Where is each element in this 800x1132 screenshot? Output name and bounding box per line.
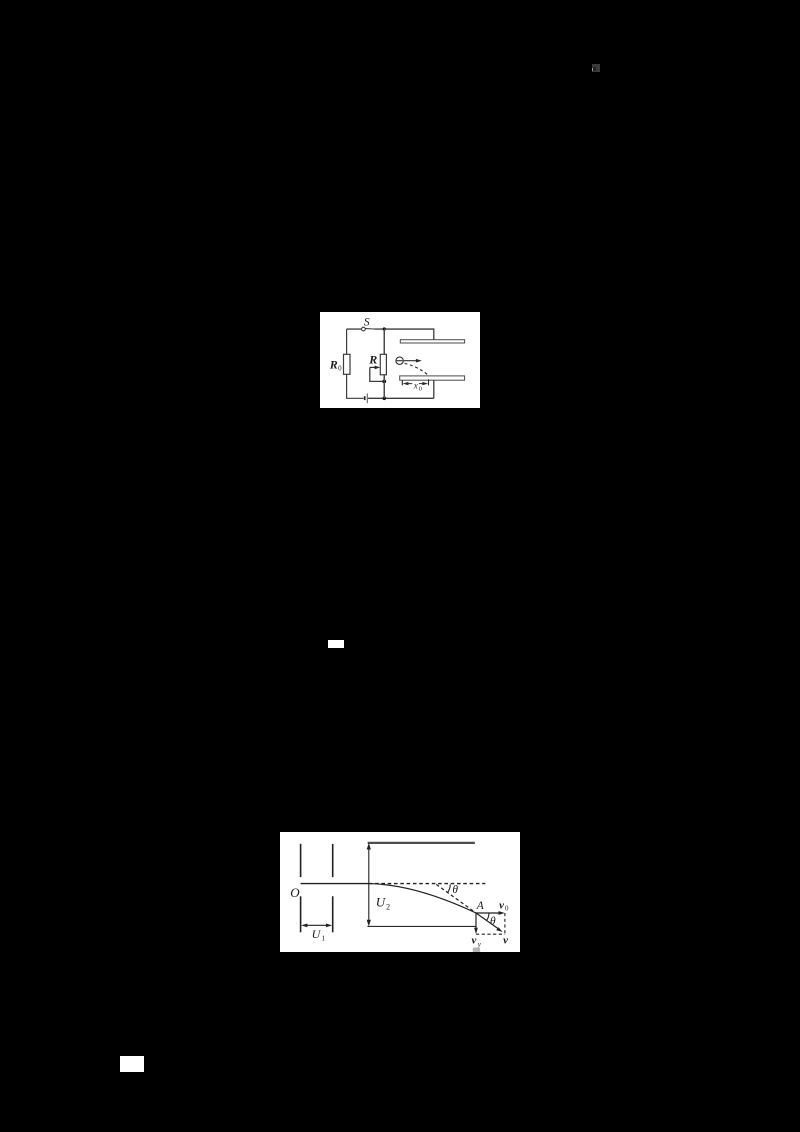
- svg-text:x: x: [413, 380, 418, 390]
- svg-text:θ: θ: [490, 915, 496, 927]
- wire bottom plate down: [433, 380, 435, 398]
- angle theta arc lower: [486, 913, 488, 921]
- small grey ui icon top-right: [592, 64, 601, 73]
- accelerating plate upper-left: [299, 844, 301, 877]
- svg-text:y: y: [477, 940, 482, 948]
- dashed horizontal from vy tip: [476, 933, 505, 935]
- accelerating plate lower-right: [331, 896, 333, 932]
- particle velocity arrow: [404, 359, 417, 361]
- svg-text:1: 1: [321, 933, 325, 942]
- white dash mark mid-page: [328, 640, 344, 648]
- wire top middle: [375, 328, 385, 330]
- x0 right tick: [428, 379, 430, 385]
- wiper arrow of R: [370, 366, 376, 368]
- x0 left tick: [401, 380, 403, 385]
- white rect bottom-left: [120, 1056, 144, 1072]
- svg-text:v: v: [499, 899, 504, 911]
- svg-text:v: v: [471, 934, 476, 946]
- trajectory curve: [369, 883, 476, 912]
- svg-text:θ: θ: [452, 884, 458, 896]
- U1 dimension arrow: [306, 924, 326, 926]
- wire left-bottom vertical: [347, 374, 364, 398]
- x0 dimension arrows: [408, 382, 424, 384]
- angle theta arc upper: [447, 884, 450, 892]
- vector vy: [475, 913, 477, 929]
- wire top-left horizontal: [347, 328, 362, 330]
- switch S: [362, 327, 366, 331]
- dashed tangent line: [436, 884, 476, 913]
- vector v: [476, 913, 498, 929]
- figure 1: circuit schematic: [320, 312, 480, 408]
- svg-text:2: 2: [386, 902, 390, 911]
- svg-text:A: A: [476, 900, 485, 912]
- svg-text:R: R: [368, 352, 377, 366]
- wire left vertical: [346, 329, 348, 354]
- capacitor top plate: [400, 339, 464, 342]
- wiper wire down to node: [370, 367, 384, 381]
- grey smudge bottom: [473, 947, 480, 951]
- charged particle (minus): [396, 357, 403, 364]
- svg-text:0: 0: [338, 364, 342, 372]
- figure 2: deflection diagram: [280, 832, 520, 952]
- wire mid vertical lower: [383, 374, 385, 398]
- axis line from O: [300, 882, 368, 884]
- dashed trajectory: [405, 363, 429, 375]
- dashed vertical from v0 tip: [504, 913, 506, 934]
- svg-text:U: U: [375, 894, 386, 909]
- node junction wiper: [382, 379, 386, 383]
- wire top-right to plate: [384, 329, 434, 340]
- battery long plate: [366, 393, 368, 403]
- node junction bottom: [382, 396, 386, 400]
- wire mid vertical upper: [383, 329, 385, 354]
- lower boundary line: [367, 925, 475, 927]
- accelerating plate lower-left: [299, 896, 301, 932]
- svg-text:O: O: [290, 885, 300, 900]
- svg-text:U: U: [311, 927, 321, 941]
- resistor R (rheostat): [380, 354, 386, 375]
- svg-text:R: R: [329, 357, 338, 371]
- svg-text:0: 0: [505, 904, 509, 912]
- battery short plate: [364, 396, 366, 400]
- U2 dimension arrow: [368, 848, 370, 921]
- node junction top: [383, 327, 386, 330]
- accelerating plate upper-right: [331, 844, 333, 877]
- svg-text:S: S: [364, 316, 370, 328]
- deflecting plate top: [367, 842, 474, 844]
- wire bottom: [368, 397, 434, 399]
- vector v0: [476, 912, 499, 914]
- capacitor bottom plate: [400, 376, 465, 380]
- dashed horizontal reference: [369, 882, 486, 884]
- svg-text:v: v: [503, 934, 508, 946]
- resistor R0: [344, 354, 351, 374]
- svg-text:0: 0: [419, 385, 422, 392]
